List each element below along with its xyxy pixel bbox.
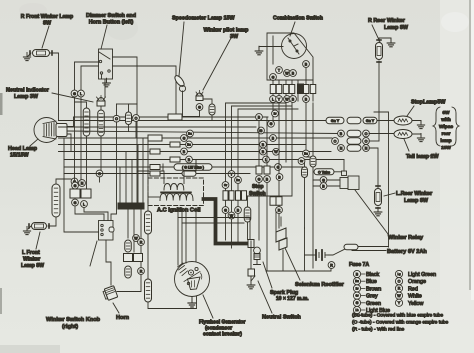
wire R rear winker down to tail bus xyxy=(378,61,380,141)
wire loop comb switch outer xyxy=(226,103,287,240)
svg-text:Lamp 8W: Lamp 8W xyxy=(404,198,429,204)
svg-text:L Front: L Front xyxy=(22,250,40,256)
head lamp reflector circle xyxy=(34,118,59,143)
svg-text:15/15W: 15/15W xyxy=(10,153,29,159)
label spark plug xyxy=(270,290,309,302)
connector capsules on stop lamp feed xyxy=(326,117,377,124)
ground at combination switch xyxy=(255,46,283,55)
horn body xyxy=(102,286,117,301)
svg-text:Horn: Horn xyxy=(116,315,130,321)
Bu-tube capsule on wire 1 xyxy=(83,108,90,136)
wire bus into connector bar xyxy=(120,138,143,203)
wire dimmer switch second contact down xyxy=(81,66,99,90)
svg-text:G: G xyxy=(322,178,325,182)
svg-text:W: W xyxy=(397,294,401,298)
wire drop x313 long xyxy=(312,103,314,156)
wire R front winker lamp to bus xyxy=(50,53,59,121)
combination switch contact dots xyxy=(289,40,298,52)
wire dimmer switch right lower to loop xyxy=(113,66,177,117)
svg-text:Bu: Bu xyxy=(188,132,192,136)
battery 6V 2Ah symbol xyxy=(313,250,328,260)
wire bus line 4 tail lamp feed xyxy=(67,131,338,134)
scan edge artefacts xyxy=(0,93,3,314)
combination switch contact row circles xyxy=(270,61,310,81)
code circles above connector pair left xyxy=(72,180,86,189)
wipac note bracket xyxy=(428,107,459,156)
wire loop comb switch inner xyxy=(238,109,298,244)
leader to head lamp xyxy=(30,139,38,146)
ignition coil secondary winding xyxy=(160,194,193,201)
wire selenium to battery loop xyxy=(282,250,284,271)
svg-text:O: O xyxy=(115,117,118,121)
wire between tubes xyxy=(147,234,149,279)
svg-text:Gn Y: Gn Y xyxy=(331,119,340,123)
wire beam capsule to bus xyxy=(128,125,130,132)
wire line3 to R rear winker drop xyxy=(369,140,379,142)
svg-text:Orange: Orange xyxy=(408,279,426,285)
ground below L rear winker xyxy=(374,207,382,216)
svg-text:N: N xyxy=(365,146,368,150)
combination switch lever xyxy=(288,38,299,54)
wire neutral drop tail xyxy=(99,177,101,182)
tube capsule B xyxy=(302,167,308,178)
code circle Lb on dimmer wire xyxy=(78,90,85,97)
label neutral indicator lamp xyxy=(6,88,50,101)
svg-text:with: with xyxy=(440,117,451,123)
coil top feed wires xyxy=(163,160,196,172)
wire bus line 7 xyxy=(59,151,332,153)
wires coil area to right xyxy=(178,218,250,240)
wire bus to winker switch left xyxy=(64,138,99,232)
connector pair left xyxy=(70,189,91,198)
svg-text:Lamp 8W: Lamp 8W xyxy=(384,25,409,31)
ground at L front winker xyxy=(23,226,31,235)
svg-text:W: W xyxy=(285,97,289,101)
connector pair on comb drops xyxy=(270,197,282,206)
svg-text:Br: Br xyxy=(274,112,277,116)
svg-text:Winker Relay: Winker Relay xyxy=(388,235,424,241)
code circle O near beam capsule xyxy=(133,115,140,122)
leader L front winker xyxy=(36,232,40,249)
spark plug cap and body xyxy=(254,247,261,264)
leader battery xyxy=(352,250,386,252)
svg-text:G: G xyxy=(74,184,77,188)
svg-text:R: R xyxy=(140,269,143,273)
svg-text:Horn Button (left): Horn Button (left) xyxy=(89,20,134,26)
svg-text:O: O xyxy=(135,116,138,120)
O-tube capsule to relay xyxy=(314,169,334,175)
label R front winker lamp xyxy=(21,14,73,27)
code circles on long drops xyxy=(272,110,305,213)
connector rects on bus lines xyxy=(148,114,182,176)
O-tube capsule above spark plug junction xyxy=(244,207,251,222)
wire capsule to flywheel bottom loop xyxy=(148,297,197,309)
svg-text:(R - tube) - With red line: (R - tube) - With red line xyxy=(352,327,404,333)
wire hi-lo branch left xyxy=(117,103,129,105)
wire O-tube down to HT junction xyxy=(247,222,249,240)
svg-text:L: L xyxy=(83,202,85,206)
svg-text:rear: rear xyxy=(441,131,450,137)
wire tubes down to bus xyxy=(87,136,102,189)
svg-text:Winker: Winker xyxy=(23,257,40,263)
wire dimmer switch left contact down to bus xyxy=(75,62,99,90)
wire bus L8 to relay trigger xyxy=(343,160,345,172)
svg-text:R: R xyxy=(330,263,333,267)
leader to neutral indicator lamp xyxy=(52,93,93,102)
hv junction node xyxy=(248,240,254,248)
svg-text:Dimmer Switch and: Dimmer Switch and xyxy=(86,13,136,19)
leader to speedometer lamp xyxy=(179,22,184,76)
svg-text:Fuse 7A: Fuse 7A xyxy=(349,262,369,268)
neutral switch body xyxy=(248,241,255,281)
svg-text:G: G xyxy=(260,129,263,133)
svg-text:O: O xyxy=(365,132,368,136)
leader to R rear winker lamp xyxy=(372,25,380,42)
ignition coil primary winding xyxy=(164,184,184,191)
code circles column B on bus xyxy=(268,120,282,170)
flywheel generator circle xyxy=(175,262,210,297)
svg-text:18W: 18W xyxy=(441,145,451,151)
svg-text:Lb: Lb xyxy=(355,308,359,312)
ground at tail lamp xyxy=(412,134,425,142)
ground at stop lamp xyxy=(412,121,425,129)
svg-text:(right): (right) xyxy=(62,324,78,330)
O-tube on winker pilot wire xyxy=(209,104,215,115)
leader winker relay xyxy=(355,190,388,234)
wires connector pair to winker switch xyxy=(75,206,108,221)
ground below flywheel xyxy=(188,297,196,308)
A.C ignition coil dashed box xyxy=(148,178,204,206)
wire code circle O stub xyxy=(135,121,137,138)
svg-text:Selenium Rectifier: Selenium Rectifier xyxy=(295,282,345,288)
leader stop lamp xyxy=(407,106,414,116)
leader selenium rectifier xyxy=(285,248,300,280)
wire bus to tube top xyxy=(56,179,71,184)
svg-text:R Rear Winker: R Rear Winker xyxy=(368,18,406,24)
leader spark plug xyxy=(263,262,272,288)
svg-text:R: R xyxy=(398,287,401,291)
svg-text:8W: 8W xyxy=(43,21,52,27)
code circles below connector pair left xyxy=(72,199,88,207)
svg-text:N: N xyxy=(81,181,84,185)
wires into flywheel top xyxy=(178,208,196,265)
wires combination switch contacts down to connectors xyxy=(273,80,313,101)
svg-text:Gr: Gr xyxy=(300,159,303,163)
svg-text:( G LW Line ): ( G LW Line ) xyxy=(182,166,205,170)
svg-text:Lamp 3W: Lamp 3W xyxy=(14,94,39,100)
stop lamp 5W xyxy=(394,116,412,125)
svg-text:Speedometer Lamp 15W: Speedometer Lamp 15W xyxy=(172,16,236,22)
svg-text:N: N xyxy=(340,146,343,150)
wire drop x279 to selenium xyxy=(278,103,280,228)
relay lead wires xyxy=(313,172,342,186)
wire drop x292 to O-tube xyxy=(248,103,293,207)
svg-text:Lamp 8W: Lamp 8W xyxy=(21,263,44,269)
tail lamp 2W xyxy=(394,130,412,139)
ground below neutral switch xyxy=(247,280,255,289)
code circles column A on bus xyxy=(256,114,270,163)
svg-text:Green: Green xyxy=(366,301,381,307)
winker switch knob body xyxy=(99,221,115,241)
svg-text:StopLamp5W: StopLamp5W xyxy=(411,100,446,106)
svg-text:Bu: Bu xyxy=(355,279,359,283)
svg-text:R: R xyxy=(278,208,281,212)
ground at R front winker lamp xyxy=(23,53,31,61)
connector capsule on bus line 10 xyxy=(182,171,196,177)
svg-text:Lg: Lg xyxy=(397,272,401,276)
svg-text:Gr: Gr xyxy=(355,294,358,298)
leader L rear winker xyxy=(384,193,395,196)
svg-text:Wipac: Wipac xyxy=(439,124,453,130)
code circle G on left dimmer wire xyxy=(71,90,78,97)
wire capsule top up xyxy=(147,138,149,211)
wire line4 corner to L rear winker xyxy=(369,148,378,190)
coil terminal wires xyxy=(137,171,196,197)
wire loop upper left of comb switch xyxy=(195,160,197,172)
label R rear winker lamp xyxy=(368,18,409,31)
wire speedometer lamp down to bus xyxy=(182,91,184,117)
leader to dimmer switch xyxy=(101,25,107,49)
wire bus line 10 xyxy=(64,173,250,175)
leader to R front winker lamp xyxy=(42,26,49,48)
wire left dimmer chain xyxy=(74,97,76,178)
wire winker switch down xyxy=(106,240,111,285)
label winker switch knob xyxy=(46,317,101,330)
selenium rectifier element xyxy=(276,212,287,250)
wire bus line 3 xyxy=(59,126,257,128)
svg-text:Yellow: Yellow xyxy=(408,301,423,307)
code circles on loop wires lower xyxy=(222,207,241,219)
code circle R below battery xyxy=(328,262,335,269)
G LW line capsule on bus xyxy=(174,164,212,171)
svg-text:Winker Switch Knob: Winker Switch Knob xyxy=(46,317,101,323)
stop switch contacts xyxy=(256,117,271,271)
svg-text:Neutral Switch: Neutral Switch xyxy=(262,315,301,321)
svg-text:Winker pilot lamp: Winker pilot lamp xyxy=(204,28,250,34)
connector rects centre bottom xyxy=(124,254,143,262)
svg-text:Br: Br xyxy=(356,286,359,290)
wires head lamp to bus xyxy=(67,117,74,152)
svg-text:3W: 3W xyxy=(230,34,239,40)
svg-text:6W: 6W xyxy=(442,110,450,116)
tail feed wire to lamp xyxy=(369,133,394,135)
svg-text:Combination Switch: Combination Switch xyxy=(273,16,323,22)
svg-text:10 × 127 m.m.: 10 × 127 m.m. xyxy=(276,296,309,302)
svg-text:G: G xyxy=(74,201,77,205)
svg-text:Bu: Bu xyxy=(187,143,191,147)
lamp R rear winker 8W xyxy=(376,40,383,62)
wire hi-lo branch down to winker switch xyxy=(111,104,117,221)
code circles on relay leads xyxy=(320,177,327,190)
battery loop wires xyxy=(266,228,389,271)
svg-text:Stop: Stop xyxy=(252,184,264,190)
fuse 7A capsule xyxy=(344,244,358,250)
neutral indicator lamp bulb xyxy=(97,96,106,107)
svg-text:(Bu-tube) - Covered with blue: (Bu-tube) - Covered with blue empire tub… xyxy=(352,313,443,319)
leader to winker pilot lamp xyxy=(203,38,231,90)
black connector bar above drops xyxy=(118,203,144,209)
wire horn to circuit xyxy=(117,275,141,292)
svg-text:White: White xyxy=(408,294,422,300)
svg-text:R Front Winker Lamp: R Front Winker Lamp xyxy=(21,14,73,20)
svg-text:G: G xyxy=(258,177,261,181)
svg-text:G: G xyxy=(272,75,275,79)
wire bus line 2 stop lamp feed xyxy=(59,120,327,122)
legend tube notes xyxy=(352,313,449,333)
lamp L rear winker 8W xyxy=(375,186,382,208)
wire winker pilot lamp down xyxy=(199,110,201,116)
connector rects under combination switch xyxy=(270,84,316,94)
wire bus line 6 xyxy=(59,144,307,146)
beam selector capsule left xyxy=(129,104,138,112)
code circles on centre drops xyxy=(133,235,145,275)
speedometer lamp 15W xyxy=(173,74,186,91)
wire tube to L front winker xyxy=(48,217,56,226)
svg-text:lamp: lamp xyxy=(440,138,451,144)
svg-text:(O -tube) - Covered with oran: (O -tube) - Covered with orange empire t… xyxy=(352,320,449,326)
flywheel generator internals xyxy=(178,263,202,290)
svg-text:Tail lamp 2W: Tail lamp 2W xyxy=(406,154,439,160)
wire speedo base to bus vertical xyxy=(183,116,200,118)
svg-text:Grey: Grey xyxy=(366,294,378,300)
svg-text:Brown: Brown xyxy=(366,286,381,292)
svg-text:G: G xyxy=(224,208,227,212)
wire right loop vertical xyxy=(374,112,389,247)
svg-text:L: L xyxy=(272,97,274,101)
svg-text:Bu: Bu xyxy=(304,152,308,156)
svg-text:O Tube: O Tube xyxy=(318,170,330,174)
svg-text:Blue: Blue xyxy=(366,279,377,285)
label winker pilot lamp xyxy=(204,28,250,41)
wire dimmer switch right to loop xyxy=(113,57,138,206)
winker pilot lamp 3W xyxy=(196,91,203,101)
wire bus line 5 xyxy=(59,137,333,139)
ground arm R rear winker xyxy=(379,38,395,47)
wire dimmer switch to neutral lamp drop xyxy=(104,79,106,97)
svg-text:W: W xyxy=(134,236,138,240)
svg-text:O: O xyxy=(334,139,337,143)
lower chain circles line 3 xyxy=(332,138,370,145)
connector rect row on loop wires xyxy=(223,191,247,201)
code circle on neutral drop xyxy=(96,170,103,177)
svg-text:G: G xyxy=(356,301,359,305)
svg-text:L: L xyxy=(80,92,82,96)
code circle Bu above left tube xyxy=(71,178,78,185)
legend colour codes xyxy=(353,270,436,314)
wire loop comb switch middle xyxy=(232,106,293,248)
code circles on loop wires upper xyxy=(222,171,241,189)
code circle Bu on x306 drop xyxy=(303,150,310,157)
leader to combination switch xyxy=(290,22,295,36)
wire bus line 1 xyxy=(74,116,269,118)
svg-text:R: R xyxy=(140,240,143,244)
leader tail lamp xyxy=(404,139,409,151)
combination switch rotor circle xyxy=(282,34,307,59)
svg-text:Gr: Gr xyxy=(224,183,227,187)
svg-text:O: O xyxy=(365,139,368,143)
label flywheel generator xyxy=(199,320,245,338)
svg-text:Neutral Indicator: Neutral Indicator xyxy=(6,88,50,94)
wire tube B down to battery loop xyxy=(304,178,306,229)
svg-text:Light Green: Light Green xyxy=(408,272,436,278)
capsules on centre drops xyxy=(125,240,132,278)
combination switch housing xyxy=(267,33,313,80)
wire dimmer chain branch to left tube xyxy=(75,102,87,108)
wire winker pilot lamp right xyxy=(203,99,212,104)
wire winker pilot tube down xyxy=(211,115,213,121)
leader horn xyxy=(113,303,119,313)
code circles under combination switch connectors xyxy=(270,96,310,103)
svg-text:Bu: Bu xyxy=(236,178,240,182)
wire x313 tube down to battery loop xyxy=(312,167,314,268)
tube capsule B feed xyxy=(304,160,306,168)
label head lamp xyxy=(8,146,38,159)
svg-text:G: G xyxy=(270,122,273,126)
wire high tension lead thick xyxy=(204,199,250,244)
tube capsule A on x313 drop xyxy=(310,156,316,167)
svg-text:Red: Red xyxy=(408,286,418,292)
ground below dimmer switch xyxy=(103,78,111,87)
label stop switch xyxy=(249,184,266,197)
svg-text:W: W xyxy=(285,71,289,75)
ignition coil core xyxy=(161,192,191,193)
wire drop x306 long xyxy=(305,103,307,150)
neutral lamp tube capsule xyxy=(98,110,105,136)
svg-text:O: O xyxy=(398,279,401,283)
label L front winker lamp xyxy=(21,250,44,269)
svg-text:G: G xyxy=(183,136,186,140)
Bu tube capsule upper on kill wire xyxy=(145,211,152,234)
combination switch housing inner wall xyxy=(273,36,306,80)
wires bus to winker switch contacts xyxy=(75,178,82,185)
svg-text:contact breaker): contact breaker) xyxy=(203,332,242,338)
svg-text:Battery 6V 2Ah: Battery 6V 2Ah xyxy=(387,249,427,255)
svg-text:G: G xyxy=(73,92,76,96)
winker relay body xyxy=(340,171,359,190)
Gn tube capsule bottom xyxy=(145,279,152,302)
svg-text:G: G xyxy=(198,105,201,109)
label L rear winker lamp xyxy=(396,191,433,204)
stop lamp feed wire to lamp xyxy=(377,120,394,122)
wire bus line 9 xyxy=(64,166,306,168)
wire neutral lamp down xyxy=(100,106,102,112)
head lamp bulb xyxy=(43,121,67,139)
svg-text:Black: Black xyxy=(366,272,379,278)
leader flywheel generator xyxy=(203,295,213,318)
tail lamp chain circles and capsule xyxy=(338,130,370,137)
label dimmer switch and horn button xyxy=(86,13,136,26)
wire bus line 8 xyxy=(64,159,344,161)
svg-text:Gn Y: Gn Y xyxy=(366,119,375,123)
Bu tube capsule left tall xyxy=(52,184,60,217)
svg-text:Head Lamp: Head Lamp xyxy=(8,146,38,152)
leader winker switch knob xyxy=(90,241,97,266)
code circle O on hi-lo branch xyxy=(113,115,120,122)
lamp R front winker 8W xyxy=(30,50,52,57)
lamp L front winker 8W xyxy=(29,223,49,230)
leader neutral switch xyxy=(258,281,272,313)
wire drop x273 to stop area xyxy=(272,103,274,121)
svg-text:L.Rear Winker: L.Rear Winker xyxy=(396,191,433,197)
dimmer switch body xyxy=(99,49,113,79)
svg-text:A.C Ignition Coil: A.C Ignition Coil xyxy=(157,208,201,214)
wire x306 to tube A xyxy=(306,156,313,158)
lower chain circles line 4 xyxy=(338,145,370,152)
code circle column mid bus xyxy=(181,130,194,163)
code circle under winker pilot lamp xyxy=(196,104,203,111)
svg-text:W: W xyxy=(274,150,278,154)
wire drop x286 long xyxy=(285,103,287,162)
